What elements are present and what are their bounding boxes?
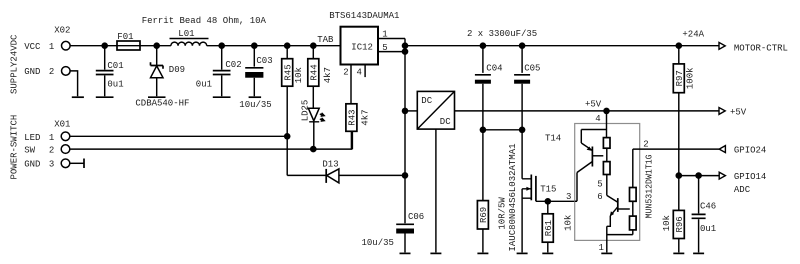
svg-text:10u/35: 10u/35: [239, 100, 271, 110]
wire pin1: [606, 226, 608, 252]
wire DC/DC ground pin: [435, 129, 437, 252]
resistor R97: [673, 46, 695, 176]
transistor T15 MOSFET IAUC80N04S6L032ATMA1: [508, 143, 557, 252]
resistor R69: [477, 197, 507, 253]
wire R45 bottom to D13: [286, 136, 288, 175]
svg-text:C05: C05: [524, 63, 540, 73]
wire pin2 into box: [632, 149, 634, 187]
node pin5: [402, 48, 409, 55]
capacitor C06: [362, 212, 425, 252]
capacitor C04: [475, 46, 503, 201]
node C05 top: [519, 42, 526, 49]
node GPIO14/R97: [676, 172, 683, 179]
svg-text:1: 1: [49, 133, 54, 143]
svg-text:2: 2: [343, 67, 348, 77]
node C01: [101, 42, 108, 49]
svg-text:T14: T14: [545, 133, 561, 143]
wire pin4 into box: [606, 111, 608, 138]
svg-text:0u1: 0u1: [107, 80, 123, 90]
diode D13: [287, 159, 405, 183]
node pin4: [603, 108, 610, 115]
svg-text:4k7: 4k7: [360, 109, 370, 125]
connector X01: [24, 119, 70, 169]
arrow +5V: [719, 108, 725, 115]
diode D09 (zener CDBA540-HF): [135, 46, 189, 109]
svg-text:6: 6: [597, 192, 602, 202]
svg-text:0u1: 0u1: [700, 224, 716, 234]
svg-text:4: 4: [357, 67, 362, 77]
node tie C04: [480, 127, 487, 134]
wire IC12 pin2: [350, 65, 352, 104]
node D13/out: [402, 172, 409, 179]
svg-text:10k: 10k: [563, 215, 573, 231]
svg-text:C03: C03: [256, 56, 272, 66]
svg-text:10R/5W: 10R/5W: [497, 197, 507, 230]
svg-text:R43: R43: [348, 109, 358, 125]
svg-text:X01: X01: [54, 119, 70, 129]
svg-text:POWER-SWITCH: POWER-SWITCH: [10, 115, 20, 180]
fuse F01: [117, 32, 140, 50]
wire cap bottoms tie: [483, 129, 522, 131]
ground (D09): [148, 96, 166, 98]
node R97 top: [676, 42, 683, 49]
svg-text:GND: GND: [24, 67, 40, 77]
node D09: [153, 42, 160, 49]
transistor T14 dual MUN5312DW1T1G: [545, 111, 655, 253]
ground (C02): [213, 96, 231, 98]
wire X01 GND stub: [70, 162, 84, 164]
arrow MOTOR-CTRL: [719, 42, 725, 49]
node R45 top: [284, 42, 291, 49]
ground (C46): [693, 252, 704, 254]
svg-text:10u/35: 10u/35: [362, 238, 394, 248]
svg-text:C06: C06: [408, 212, 424, 222]
wire IC12 pin1: [378, 38, 405, 40]
inductor L01: [170, 29, 209, 46]
svg-text:MOTOR-CTRL: MOTOR-CTRL: [734, 43, 788, 53]
DC/DC converter: [417, 91, 454, 129]
svg-text:ADC: ADC: [734, 185, 751, 195]
node tie C05: [519, 127, 526, 134]
resistor internal Ra: [603, 138, 610, 149]
ground (R61): [542, 252, 553, 254]
resistor internal Rc: [630, 188, 637, 202]
wire T15 gate line (pin 3): [536, 200, 577, 202]
wire +5V rail: [455, 110, 719, 112]
svg-text:GPIO14: GPIO14: [734, 172, 766, 182]
svg-text:2: 2: [49, 146, 54, 156]
wire X01 SW line: [70, 131, 352, 149]
svg-text:C02: C02: [225, 60, 241, 70]
svg-text:2 x 3300uF/35: 2 x 3300uF/35: [467, 29, 537, 39]
capacitor C01: [96, 46, 124, 96]
svg-text:5: 5: [597, 180, 602, 190]
ground (C06): [400, 252, 411, 254]
arrow GPIO24 (input): [719, 146, 725, 153]
capacitor C05: [514, 46, 540, 179]
LED LD25: [300, 100, 324, 149]
svg-text:R69: R69: [479, 207, 489, 223]
svg-text:4k7: 4k7: [323, 67, 333, 83]
svg-text:+5V: +5V: [585, 99, 602, 109]
node DC/DC input: [402, 108, 409, 115]
resistor R43: [346, 104, 370, 149]
wire 24V rail right: [405, 45, 719, 47]
resistor R45: [282, 46, 304, 137]
wire X01 LED line: [70, 135, 287, 137]
wire Rd to pin1: [607, 230, 633, 235]
svg-text:+24A: +24A: [682, 30, 704, 40]
svg-text:C04: C04: [486, 63, 502, 73]
wire output node vertical: [404, 39, 406, 224]
ground (X02): [72, 96, 84, 98]
svg-text:MUN5312DW1T1G: MUN5312DW1T1G: [645, 154, 655, 218]
svg-text:DC: DC: [421, 96, 432, 106]
wire Rb down: [606, 175, 608, 196]
wire IC12 pin4 stub: [364, 65, 366, 78]
ground (C03): [249, 96, 262, 98]
capacitor C46: [692, 176, 717, 253]
svg-text:D09: D09: [169, 65, 185, 75]
svg-text:R97: R97: [675, 70, 685, 86]
svg-text:+5V: +5V: [730, 107, 747, 117]
svg-text:R96: R96: [675, 216, 685, 232]
svg-text:CDBA540-HF: CDBA540-HF: [135, 98, 189, 108]
wire collector diag T14b: [607, 195, 618, 202]
wire DC/DC input: [405, 110, 417, 112]
resistor internal Rd: [630, 216, 637, 230]
svg-text:T15: T15: [540, 185, 556, 195]
svg-text:R44: R44: [310, 64, 320, 80]
svg-text:C01: C01: [107, 61, 123, 71]
node pin1/rail: [402, 42, 409, 49]
svg-text:R45: R45: [283, 64, 293, 80]
wire collector to pin3: [575, 173, 577, 202]
svg-text:0u1: 0u1: [196, 80, 212, 90]
node R44 top: [310, 42, 317, 49]
svg-text:GND: GND: [24, 160, 40, 170]
svg-text:1: 1: [599, 243, 604, 253]
capacitor C02: [196, 46, 242, 96]
ground (DC/DC): [430, 252, 441, 254]
ground (MUN pin1): [601, 252, 612, 254]
svg-text:TAB: TAB: [317, 35, 334, 45]
node GPIO14/C46: [695, 172, 702, 179]
svg-text:L01: L01: [178, 29, 194, 39]
svg-text:10k: 10k: [662, 215, 672, 231]
svg-text:SW: SW: [24, 146, 35, 156]
svg-text:3: 3: [566, 192, 571, 202]
transistor T14a PNP: [581, 143, 592, 150]
svg-text:2: 2: [49, 67, 54, 77]
wire GPIO24 line: [633, 148, 719, 150]
svg-text:IC12: IC12: [351, 42, 373, 52]
svg-text:3: 3: [49, 160, 54, 170]
connector X02: [24, 26, 70, 78]
svg-text:SUPPLY24VDC: SUPPLY24VDC: [10, 34, 20, 94]
wire emitter branch: [581, 130, 606, 144]
node C02: [218, 42, 225, 49]
svg-text:1: 1: [49, 42, 54, 52]
svg-text:10k: 10k: [294, 67, 304, 83]
svg-text:DC: DC: [440, 117, 451, 127]
wire main 24V rail: [70, 45, 340, 47]
svg-text:LED: LED: [24, 133, 40, 143]
node C03: [251, 42, 258, 49]
svg-text:D13: D13: [322, 159, 338, 169]
ground (C01): [96, 96, 114, 98]
svg-text:BTS6143DAUMA1: BTS6143DAUMA1: [329, 11, 399, 21]
svg-text:GPIO24: GPIO24: [734, 146, 766, 156]
node gate/R61: [545, 198, 552, 205]
svg-text:Ferrit Bead 48 Ohm, 10A: Ferrit Bead 48 Ohm, 10A: [142, 16, 267, 26]
wire GPIO14 line: [679, 175, 719, 177]
transistor T14b NPN: [617, 198, 619, 212]
wire Ra-Rb: [606, 148, 608, 161]
arrow GPIO14: [719, 172, 725, 179]
resistor R44: [308, 46, 333, 108]
resistor internal Rb: [603, 162, 610, 175]
IC IC12 (BTS6143DAUMA1): [317, 11, 399, 77]
ground (T15 source): [517, 252, 528, 254]
ground (R69): [477, 252, 488, 254]
capacitor C03: [239, 46, 272, 110]
node C04 top: [480, 42, 487, 49]
node LD25 bottom: [310, 146, 317, 153]
wire IC12 pin5: [378, 51, 405, 53]
svg-text:2: 2: [643, 139, 648, 149]
svg-text:R61: R61: [544, 220, 554, 236]
svg-text:VCC: VCC: [24, 42, 41, 52]
svg-text:IAUC80N04S6L032ATMA1: IAUC80N04S6L032ATMA1: [508, 143, 518, 251]
svg-text:C46: C46: [700, 201, 716, 211]
wire X02 GND to ground: [70, 71, 77, 96]
wire Rc-Rd: [632, 201, 634, 216]
svg-text:4: 4: [595, 114, 600, 124]
svg-text:X02: X02: [54, 26, 70, 36]
resistor R96: [662, 176, 685, 253]
svg-text:100k: 100k: [686, 67, 696, 89]
node LED/R45: [284, 133, 291, 140]
resistor R61: [542, 201, 573, 252]
ground (R96): [673, 252, 684, 254]
